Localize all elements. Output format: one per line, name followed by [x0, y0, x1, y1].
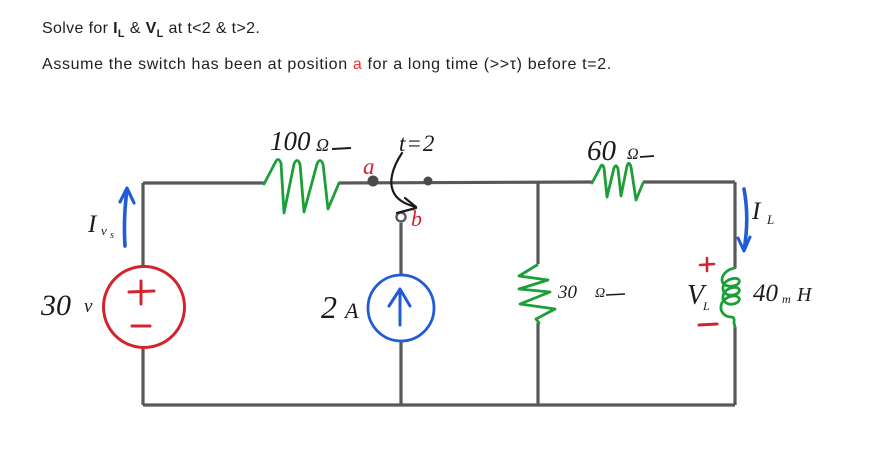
svg-text:100: 100 — [270, 126, 311, 156]
svg-text:H: H — [796, 284, 813, 306]
svg-text:L: L — [702, 299, 710, 313]
svg-text:A: A — [343, 298, 359, 323]
svg-text:Ω: Ω — [316, 135, 329, 155]
svg-text:Ω: Ω — [595, 286, 605, 301]
svg-text:m: m — [782, 292, 791, 306]
svg-text:t=2: t=2 — [399, 131, 435, 156]
svg-text:40: 40 — [753, 280, 779, 307]
svg-text:v: v — [84, 296, 93, 317]
svg-text:b: b — [411, 206, 422, 231]
svg-text:Ω: Ω — [627, 146, 639, 163]
svg-text:v: v — [101, 223, 107, 238]
svg-text:I: I — [751, 198, 762, 225]
svg-text:I: I — [87, 211, 98, 238]
svg-text:a: a — [363, 154, 375, 179]
svg-text:30: 30 — [40, 289, 71, 322]
svg-text:2: 2 — [321, 289, 337, 325]
svg-text:60: 60 — [587, 135, 617, 167]
svg-text:L: L — [766, 212, 774, 227]
svg-text:30: 30 — [557, 282, 578, 303]
svg-text:s: s — [110, 230, 114, 241]
